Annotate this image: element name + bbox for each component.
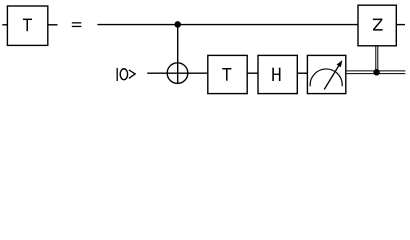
measurement meter box: [307, 55, 345, 93]
gate T (bottom qubit): [208, 55, 247, 93]
meter needle arrowhead: [337, 60, 343, 67]
classical junction dot: [373, 69, 380, 76]
meter needle: [324, 62, 341, 89]
CNOT target (xor circle): [167, 63, 188, 84]
node |0> ket label: bar: [117, 68, 118, 81]
wire: stub between H and meter: [297, 72, 307, 74]
node |0> ket label: zero: [120, 69, 127, 80]
wire: control vertical line: [177, 24, 179, 83]
classical double horizontal wire: [346, 70, 406, 72]
wire: bottom qubit line before CNOT target: [147, 72, 208, 74]
wire: left stub into gate T (LHS): [2, 24, 7, 26]
control dot on top wire: [174, 21, 181, 28]
gate Z (classically controlled): [358, 5, 396, 46]
gate H: [258, 55, 297, 93]
wire: right stub out of gate T (LHS): [48, 24, 58, 26]
wire: stub between T and H: [247, 72, 258, 74]
label H: [272, 68, 274, 81]
label Z: [373, 19, 383, 21]
node |0> ket label: angle bracket: [129, 70, 135, 78]
equals sign: [72, 22, 82, 23]
wire: stub out of gate Z: [396, 24, 405, 26]
gate T (left-hand side of equation): [7, 6, 47, 45]
meter gauge arc: [310, 69, 342, 86]
wire: top qubit line: [97, 24, 358, 26]
label T (LHS gate): [23, 19, 32, 20]
label T (bottom gate): [222, 68, 231, 69]
classical double vertical wire to Z: [375, 46, 377, 74]
